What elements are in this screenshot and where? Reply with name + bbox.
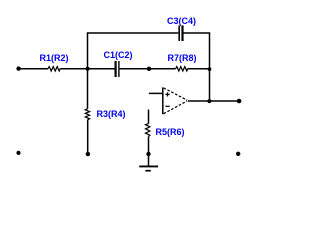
resistor R7(R8) (176, 67, 188, 71)
svg-text:R1(R2): R1(R2) (40, 53, 69, 63)
ground (139, 166, 158, 170)
capacitor C1(C2) (114, 61, 116, 77)
node B junction (147, 67, 151, 71)
right vertical wire (209, 33, 211, 101)
wire C1 to node B (120, 68, 176, 70)
resistor R1(R2) (48, 67, 60, 71)
wire R3 to bottom node (87, 120, 89, 153)
output junction (207, 99, 211, 103)
svg-text:C1(C2): C1(C2) (104, 50, 133, 60)
wire R7 to right vertical (188, 68, 210, 70)
resistor R5(R6) (146, 124, 150, 137)
wire input to R1 (19, 68, 49, 70)
node A junction (86, 67, 90, 71)
op-amp output wire (188, 100, 239, 102)
svg-text:C3(C4): C3(C4) (167, 16, 196, 26)
capacitor C3(C4) (178, 26, 180, 42)
op-amp U1 (163, 87, 187, 114)
output terminal (237, 99, 242, 104)
wire R5 down to ground (148, 137, 150, 166)
plus input mark (165, 93, 169, 95)
minus input mark (165, 105, 169, 107)
R5 bottom node (146, 152, 150, 156)
svg-text:R3(R4): R3(R4) (97, 109, 126, 119)
resistor R3(R4) (85, 109, 89, 120)
bottom-middle terminal (86, 152, 90, 156)
top wire right (183, 32, 210, 34)
node dots (16, 66, 241, 156)
junction R7 right (208, 67, 212, 71)
wire node A down to R3 (87, 69, 89, 109)
wire R1 to node A (60, 68, 114, 70)
bottom-right terminal (236, 152, 240, 156)
wire to op-amp plus input (149, 92, 163, 94)
svg-text:R7(R8): R7(R8) (168, 53, 197, 63)
bottom-left terminal (16, 151, 20, 155)
input terminal (16, 66, 20, 70)
wire R5 top stub (148, 110, 150, 124)
wire node A up (87, 33, 89, 69)
svg-text:R5(R6): R5(R6) (156, 127, 185, 137)
top wire left (87, 32, 179, 34)
